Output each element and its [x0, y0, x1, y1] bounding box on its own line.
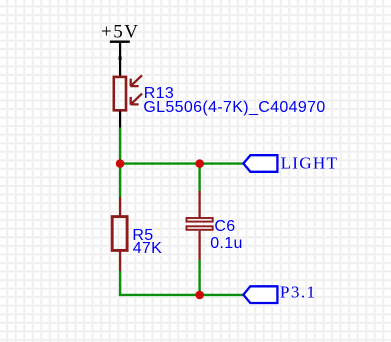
svg-text:LIGHT: LIGHT — [281, 154, 339, 173]
power port +5V — [101, 21, 139, 60]
wire R5 to bottom rail — [119, 271, 121, 296]
wire node A to R5 — [119, 163, 121, 197]
svg-text:C6: C6 — [214, 218, 235, 235]
C6 pin 1 (top) — [198, 191, 200, 218]
port P3.1 — [243, 283, 316, 303]
junction node C — [195, 291, 204, 300]
resistor R5 — [112, 197, 162, 271]
wire node A to LIGHT port — [119, 162, 244, 164]
R5 pin 1 (top) — [119, 197, 121, 216]
svg-text:GL5506(4-7K)_C404970: GL5506(4-7K)_C404970 — [143, 99, 325, 116]
R5 pin 2 (bottom) — [119, 251, 121, 272]
wire node B to C6 — [198, 163, 200, 191]
svg-text:P3.1: P3.1 — [280, 283, 317, 302]
junction node A — [116, 159, 125, 168]
svg-text:0.1u: 0.1u — [210, 235, 243, 252]
R5 body — [112, 217, 127, 251]
C6 bottom plate — [187, 226, 213, 230]
C6 pin 2 (bottom) — [198, 231, 200, 261]
svg-text:+5V: +5V — [101, 21, 139, 42]
C6 top plate — [187, 218, 213, 222]
R13 light arrow 1 — [130, 75, 142, 86]
R13 pin 2 (bottom) — [119, 111, 121, 128]
R13 light arrow 2 — [130, 94, 142, 105]
resistor R13 (photoresistor) — [114, 59, 326, 129]
R13 pin 1 (top) — [119, 59, 121, 77]
port LIGHT — [243, 154, 338, 173]
junction node B — [195, 159, 204, 168]
wire C6 to node C — [198, 260, 200, 296]
capacitor C6 — [187, 191, 243, 261]
svg-text:47K: 47K — [133, 240, 163, 257]
R13 body — [114, 77, 126, 110]
wire bottom rail to P3.1 port — [119, 294, 244, 296]
wire R13 to node A — [119, 128, 121, 165]
